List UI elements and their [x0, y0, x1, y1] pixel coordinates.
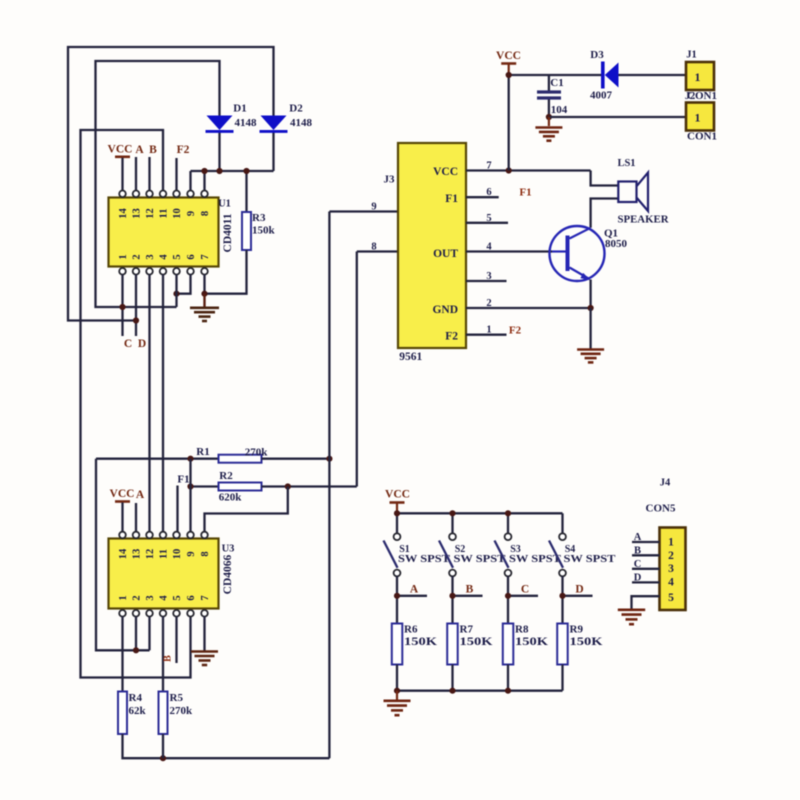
op-amp J3 9561 sound generator chip body — [398, 143, 466, 348]
svg-text:C: C — [634, 559, 642, 570]
svg-text:7: 7 — [200, 595, 211, 600]
svg-text:9561: 9561 — [399, 351, 422, 363]
wire: U1 pin 11 to U3 pin 6 (long left vertical) — [81, 130, 191, 678]
switch S4 SW SPST — [549, 513, 616, 576]
resistor R9 150K — [557, 624, 602, 665]
junction Q1 emitter / J3 pin 2 — [588, 305, 594, 311]
svg-text:CON1: CON1 — [687, 91, 717, 102]
svg-text:SPEAKER: SPEAKER — [618, 215, 669, 226]
wire: J4 pin 2 stub node B — [632, 545, 660, 556]
svg-text:6: 6 — [186, 254, 197, 259]
svg-text:5: 5 — [486, 213, 491, 224]
svg-text:150K: 150K — [570, 636, 603, 648]
svg-text:8050: 8050 — [605, 238, 628, 250]
wire: U1 pin 9 up to oscillator rail — [189, 171, 191, 191]
wire: S2 to node B and R7 — [453, 576, 483, 624]
junction R2 left / U3 pin 9 column — [187, 483, 193, 489]
junction at U1 pin 5 tie — [173, 291, 179, 297]
node A label at U3 pin 13 — [136, 489, 145, 532]
resistor R7 150K — [447, 624, 492, 665]
wire: R1 left rail down to U3 pins 1,2,3 and R4 — [96, 459, 150, 651]
resistor R4 62k — [118, 692, 147, 735]
svg-text:150K: 150K — [404, 636, 437, 648]
svg-text:J4: J4 — [660, 478, 671, 489]
node A label at U1 pin 13 — [135, 144, 144, 191]
svg-text:104: 104 — [551, 104, 568, 116]
wire: D3 anode to J1 — [619, 74, 687, 76]
wire: U1 pin 1 through node C row — [121, 274, 123, 336]
svg-text:4: 4 — [668, 577, 674, 589]
op-amp U1 CD4011 chip body — [109, 198, 219, 267]
svg-text:3: 3 — [668, 563, 674, 575]
junction R1 left / U3 pin 9 column — [187, 456, 193, 462]
diode D2 1N4148 — [260, 102, 313, 131]
svg-text:F2: F2 — [177, 144, 190, 156]
node F1 label at U3 pin 10 — [177, 473, 189, 532]
svg-text:270k: 270k — [245, 447, 269, 459]
svg-text:6: 6 — [186, 595, 197, 600]
svg-text:J1: J1 — [686, 50, 697, 61]
wire: oscillator rail (U1 pins 8,9 - D1 - R3 - D2 cathodes) — [191, 170, 274, 172]
U3 designator label — [222, 544, 235, 555]
wire: R4 top from tie row — [121, 650, 123, 691]
connector J4 CON5 — [646, 478, 686, 611]
junction at U1 pin 2 / node D row — [133, 317, 139, 323]
J3 designator label — [384, 174, 396, 186]
svg-text:7: 7 — [200, 254, 211, 259]
resistor R5 270k — [159, 692, 194, 735]
wire: J3 pin 2 GND stub to Q1 emitter node — [466, 298, 591, 309]
junction at U1 pin 1 / node C row — [119, 304, 125, 310]
speaker LS1 — [591, 158, 669, 228]
U3 part value CD4066 — [222, 554, 234, 594]
resistor R8 150K — [503, 624, 548, 665]
svg-text:F1: F1 — [177, 473, 189, 485]
svg-text:7: 7 — [486, 161, 491, 172]
svg-text:14: 14 — [118, 548, 129, 559]
svg-text:8: 8 — [371, 242, 376, 253]
svg-text:R2: R2 — [219, 470, 233, 482]
J3 internal pin labels VCC F1 OUT GND F2 — [432, 166, 458, 343]
capacitor C1 104 — [537, 75, 568, 117]
svg-text:4148: 4148 — [290, 117, 313, 129]
wire: R2 branch down to U3 pin 8 — [205, 487, 288, 532]
svg-text:9: 9 — [186, 551, 197, 556]
resistor R6 150K — [392, 624, 437, 665]
U1 top pin numbers 14-8 — [118, 208, 211, 219]
wire: J3 pin 8 column down to R2 right — [356, 252, 358, 487]
svg-text:D2: D2 — [289, 102, 303, 114]
junction bottom rail S3 — [505, 688, 511, 694]
svg-text:VCC: VCC — [110, 488, 135, 500]
node B label at U1 pin 12 — [149, 144, 157, 191]
ground under U1 pin 7 — [190, 294, 219, 321]
diode D3 1N4007 — [590, 49, 619, 102]
svg-text:F2: F2 — [509, 325, 522, 337]
svg-text:A: A — [135, 144, 144, 156]
wire: R5 bottom stub — [162, 734, 164, 758]
svg-text:SW SPST: SW SPST — [564, 554, 616, 565]
U1 bottom pin numbers 1-7 — [118, 254, 211, 260]
svg-text:VCC: VCC — [496, 50, 521, 62]
svg-text:9: 9 — [186, 211, 197, 216]
svg-text:14: 14 — [118, 208, 129, 219]
svg-text:4: 4 — [486, 242, 492, 253]
svg-text:270k: 270k — [170, 705, 194, 717]
svg-text:2: 2 — [132, 595, 143, 600]
svg-text:R7: R7 — [460, 624, 474, 636]
svg-text:4148: 4148 — [235, 117, 258, 129]
junction R5 bottom / rail — [160, 755, 166, 761]
svg-text:2: 2 — [486, 298, 491, 309]
wire: S4 to node D and R9 — [563, 576, 593, 624]
svg-text:4: 4 — [159, 254, 170, 260]
svg-text:5: 5 — [172, 254, 183, 259]
diode D1 1N4148 — [206, 102, 258, 131]
svg-text:C1: C1 — [550, 77, 563, 89]
svg-text:13: 13 — [132, 208, 143, 219]
junction node A — [394, 593, 400, 599]
svg-text:C: C — [521, 584, 529, 596]
svg-text:5: 5 — [172, 595, 183, 600]
svg-text:3: 3 — [145, 254, 156, 259]
svg-text:A: A — [634, 532, 642, 543]
node D label — [138, 338, 146, 350]
junction J3 pin 7 / VCC column — [506, 167, 512, 173]
svg-text:F1: F1 — [519, 187, 531, 199]
svg-text:LS1: LS1 — [617, 158, 635, 169]
wire: U1 pin 7 to ground — [203, 274, 205, 293]
U3 bottom pin numbers 1-7 — [118, 595, 211, 601]
wire: J4 pin 4 stub node D — [632, 572, 660, 583]
junction at U3 pin 2 tie — [133, 647, 139, 653]
junction node C — [505, 593, 511, 599]
junction at pin 8 / rail — [201, 168, 207, 174]
svg-text:R8: R8 — [515, 624, 529, 636]
svg-text:8: 8 — [200, 551, 211, 556]
wire: U1 pin 3 down to U3 pin 12 — [148, 274, 150, 532]
junction node D — [559, 593, 565, 599]
wire: R9 bottom to rail — [561, 665, 563, 691]
svg-text:11: 11 — [159, 549, 170, 559]
transistor Q1 8050 — [550, 226, 628, 281]
wire: J4 pin 5 to ground — [632, 596, 660, 608]
wire: U1 pin 8 stub up to rail — [203, 171, 205, 191]
svg-text:B: B — [466, 584, 474, 596]
svg-text:SW SPST: SW SPST — [454, 554, 506, 565]
svg-text:4007: 4007 — [590, 90, 613, 102]
wire: J3 pin 1 stub with F2 net label — [466, 325, 522, 337]
wire: U1 pin 5 down to node C row — [175, 274, 177, 307]
svg-text:VCC: VCC — [108, 144, 133, 156]
svg-text:1: 1 — [486, 325, 491, 336]
wire: D2 cathode down to rail corner — [272, 131, 274, 171]
svg-text:2: 2 — [132, 254, 143, 259]
junction R2 right branch — [285, 483, 291, 489]
svg-text:VCC: VCC — [385, 489, 410, 501]
junction top rail at S2 — [449, 510, 455, 516]
wire: J3 pin 7 stub to VCC node — [466, 161, 591, 172]
svg-text:R9: R9 — [570, 624, 584, 636]
wire: R7 bottom to rail — [451, 665, 453, 691]
svg-text:CON1: CON1 — [687, 132, 717, 143]
svg-text:R6: R6 — [404, 624, 418, 636]
svg-text:D: D — [138, 338, 146, 350]
wire: J3 pin 3 stub — [466, 271, 507, 282]
wire: J4 pin 3 stub node C — [632, 559, 660, 570]
svg-text:C: C — [124, 338, 132, 350]
wire: net D1-anode loop (second rectangle to U1 pins 5,6,1 node C) — [96, 61, 220, 307]
power VCC symbol at U3 pin 14 — [110, 488, 135, 532]
svg-text:5: 5 — [668, 592, 674, 604]
U1 top pin circles — [119, 191, 208, 198]
wire: J3 pin 6 stub with F1 net label — [466, 187, 532, 199]
svg-text:D3: D3 — [590, 49, 604, 61]
svg-text:A: A — [136, 489, 145, 501]
junction top rail at S3 — [505, 510, 511, 516]
svg-text:B: B — [634, 545, 641, 556]
wire: R8 bottom to rail — [507, 665, 509, 691]
svg-text:150K: 150K — [515, 636, 548, 648]
wire: U1 pin 2 down (node D) — [135, 274, 137, 336]
svg-text:1: 1 — [695, 70, 701, 84]
power VCC symbol at switch bank — [385, 489, 410, 514]
svg-text:1: 1 — [118, 595, 129, 600]
wire: net D2-anode loop (top outer rectangle to U1 pin 2) — [68, 47, 274, 321]
svg-text:CD4066: CD4066 — [222, 554, 234, 594]
svg-text:D: D — [634, 572, 642, 583]
resistor R2 620k — [191, 470, 357, 504]
power VCC symbol top — [496, 50, 521, 75]
junction at R3 / rail — [243, 168, 249, 174]
svg-text:12: 12 — [145, 208, 156, 219]
svg-text:10: 10 — [172, 208, 183, 219]
switch S2 SW SPST — [439, 513, 506, 576]
wire: U3 pins 1,2,3 tie row — [123, 616, 150, 650]
svg-text:1: 1 — [668, 537, 674, 549]
wire: R6 bottom to rail — [396, 665, 398, 691]
svg-text:R1: R1 — [196, 446, 209, 458]
wire: R4/R5 bottom rail to J3 pin 9 column — [123, 734, 330, 758]
svg-text:D: D — [575, 584, 583, 596]
svg-text:10: 10 — [172, 549, 183, 560]
junction node B — [449, 593, 455, 599]
ground under Q1 emitter — [577, 308, 604, 362]
wire: J3 pin 8 stub — [357, 242, 398, 253]
svg-text:U1: U1 — [218, 199, 231, 210]
svg-text:13: 13 — [132, 549, 143, 560]
switch S3 SW SPST — [495, 513, 562, 576]
resistor R1 270k — [96, 446, 329, 463]
U3 top pin circles — [119, 532, 208, 539]
U1 designator label — [218, 199, 231, 210]
wire: Q1 emitter down to GND row — [589, 280, 591, 309]
ground under switch bank — [384, 691, 411, 716]
svg-text:VCC: VCC — [433, 166, 458, 178]
wire: S3 to node C and R8 — [508, 576, 538, 624]
wire: J4 pin 1 stub node A — [632, 532, 660, 543]
wire: J3 pin 5 stub — [466, 213, 508, 224]
svg-text:12: 12 — [145, 549, 156, 560]
svg-text:R5: R5 — [170, 692, 184, 704]
junction C1 bottom / CON1-2 wire — [546, 114, 552, 120]
svg-text:F2: F2 — [445, 331, 458, 343]
junction top rail at S1 — [394, 510, 400, 516]
U1 bottom pin circles — [119, 268, 208, 275]
power VCC symbol at U1 pin 14 — [108, 144, 133, 191]
svg-text:150k: 150k — [252, 225, 276, 237]
junction bottom rail S2 — [449, 688, 455, 694]
svg-text:B: B — [163, 655, 174, 662]
resistor R3 150k — [242, 212, 276, 250]
node F2 label at U1 pin 10 — [177, 144, 190, 191]
junction at U1 pin 7 / R3 — [201, 291, 207, 297]
svg-text:U3: U3 — [222, 544, 235, 555]
junction VCC top node — [506, 72, 512, 78]
wire: U1 pins 5-6 tie — [177, 274, 191, 293]
svg-text:4: 4 — [159, 595, 170, 601]
svg-text:B: B — [149, 144, 157, 156]
wire: U3 pin 7 to ground — [203, 616, 205, 650]
svg-text:R3: R3 — [252, 212, 266, 224]
U3 top pin numbers 14-8 — [118, 548, 211, 559]
svg-text:2: 2 — [668, 550, 674, 562]
ground under C1 — [535, 117, 562, 141]
wire: C1 bottom to second CON1 — [549, 116, 686, 118]
svg-text:3: 3 — [486, 271, 491, 282]
node C label — [124, 338, 132, 350]
svg-text:1: 1 — [118, 254, 129, 259]
node B label at U3 pin 5 — [163, 616, 177, 663]
connector J2 CON1 second — [686, 103, 717, 143]
junction at D1 / rail — [216, 168, 222, 174]
svg-text:CD4011: CD4011 — [222, 213, 234, 252]
J3 part value 9561 — [399, 351, 422, 363]
svg-text:SW SPST: SW SPST — [509, 554, 561, 565]
wire: R3 bottom to U1 pin 7 ground node — [205, 250, 247, 294]
wire: switch bank top rail — [397, 512, 563, 514]
wire: VCC node to D3 and down to J3 pin 7 — [509, 75, 602, 171]
wire: R3 top to rail — [245, 171, 247, 212]
svg-text:J3: J3 — [384, 174, 396, 186]
wire: J3 pin 9 column down to R4/R5 bottom rail — [328, 212, 330, 759]
svg-text:11: 11 — [159, 209, 170, 219]
wire: J3 pin 4 stub to Q1 base — [466, 242, 552, 253]
ground under J4 pin 5 — [618, 610, 645, 624]
wire: J3 pin 9 stub — [329, 202, 398, 213]
wire: D1 cathode down to rail — [218, 131, 220, 171]
svg-text:8: 8 — [200, 211, 211, 216]
svg-text:SW SPST: SW SPST — [398, 554, 450, 565]
svg-text:A: A — [410, 584, 419, 596]
svg-text:9: 9 — [371, 202, 376, 213]
connector J1 CON1 — [685, 50, 717, 103]
op-amp U3 CD4066 chip body — [109, 539, 219, 609]
svg-text:620k: 620k — [219, 492, 243, 504]
svg-text:D1: D1 — [233, 102, 246, 114]
svg-text:3: 3 — [145, 595, 156, 600]
svg-text:6: 6 — [486, 187, 491, 198]
svg-text:62k: 62k — [129, 705, 147, 717]
svg-text:CON5: CON5 — [646, 503, 676, 515]
ground under U3 pin 7 — [191, 652, 218, 666]
svg-text:1: 1 — [695, 111, 701, 125]
U3 bottom pin circles — [119, 610, 208, 617]
junction bottom rail S1 — [394, 688, 400, 694]
wire: U3 pin 9 column up to R1/R2 — [189, 459, 191, 532]
svg-text:R4: R4 — [129, 692, 143, 704]
junction R1 right / J3 pin 9 column — [326, 456, 332, 462]
U1 part value CD4011 — [222, 213, 234, 252]
wire: U3 pin 4 down to R5 — [162, 616, 164, 691]
svg-text:GND: GND — [432, 304, 458, 316]
switch S1 SW SPST — [384, 513, 451, 576]
wire: switch bank bottom rail — [397, 690, 563, 692]
wire: U1 pin 4 down to U3 pin 11 — [162, 274, 164, 532]
svg-text:150K: 150K — [460, 636, 493, 648]
svg-text:F1: F1 — [445, 193, 458, 205]
wire: S1 to node A and R6 — [397, 576, 427, 624]
svg-text:OUT: OUT — [433, 248, 458, 260]
